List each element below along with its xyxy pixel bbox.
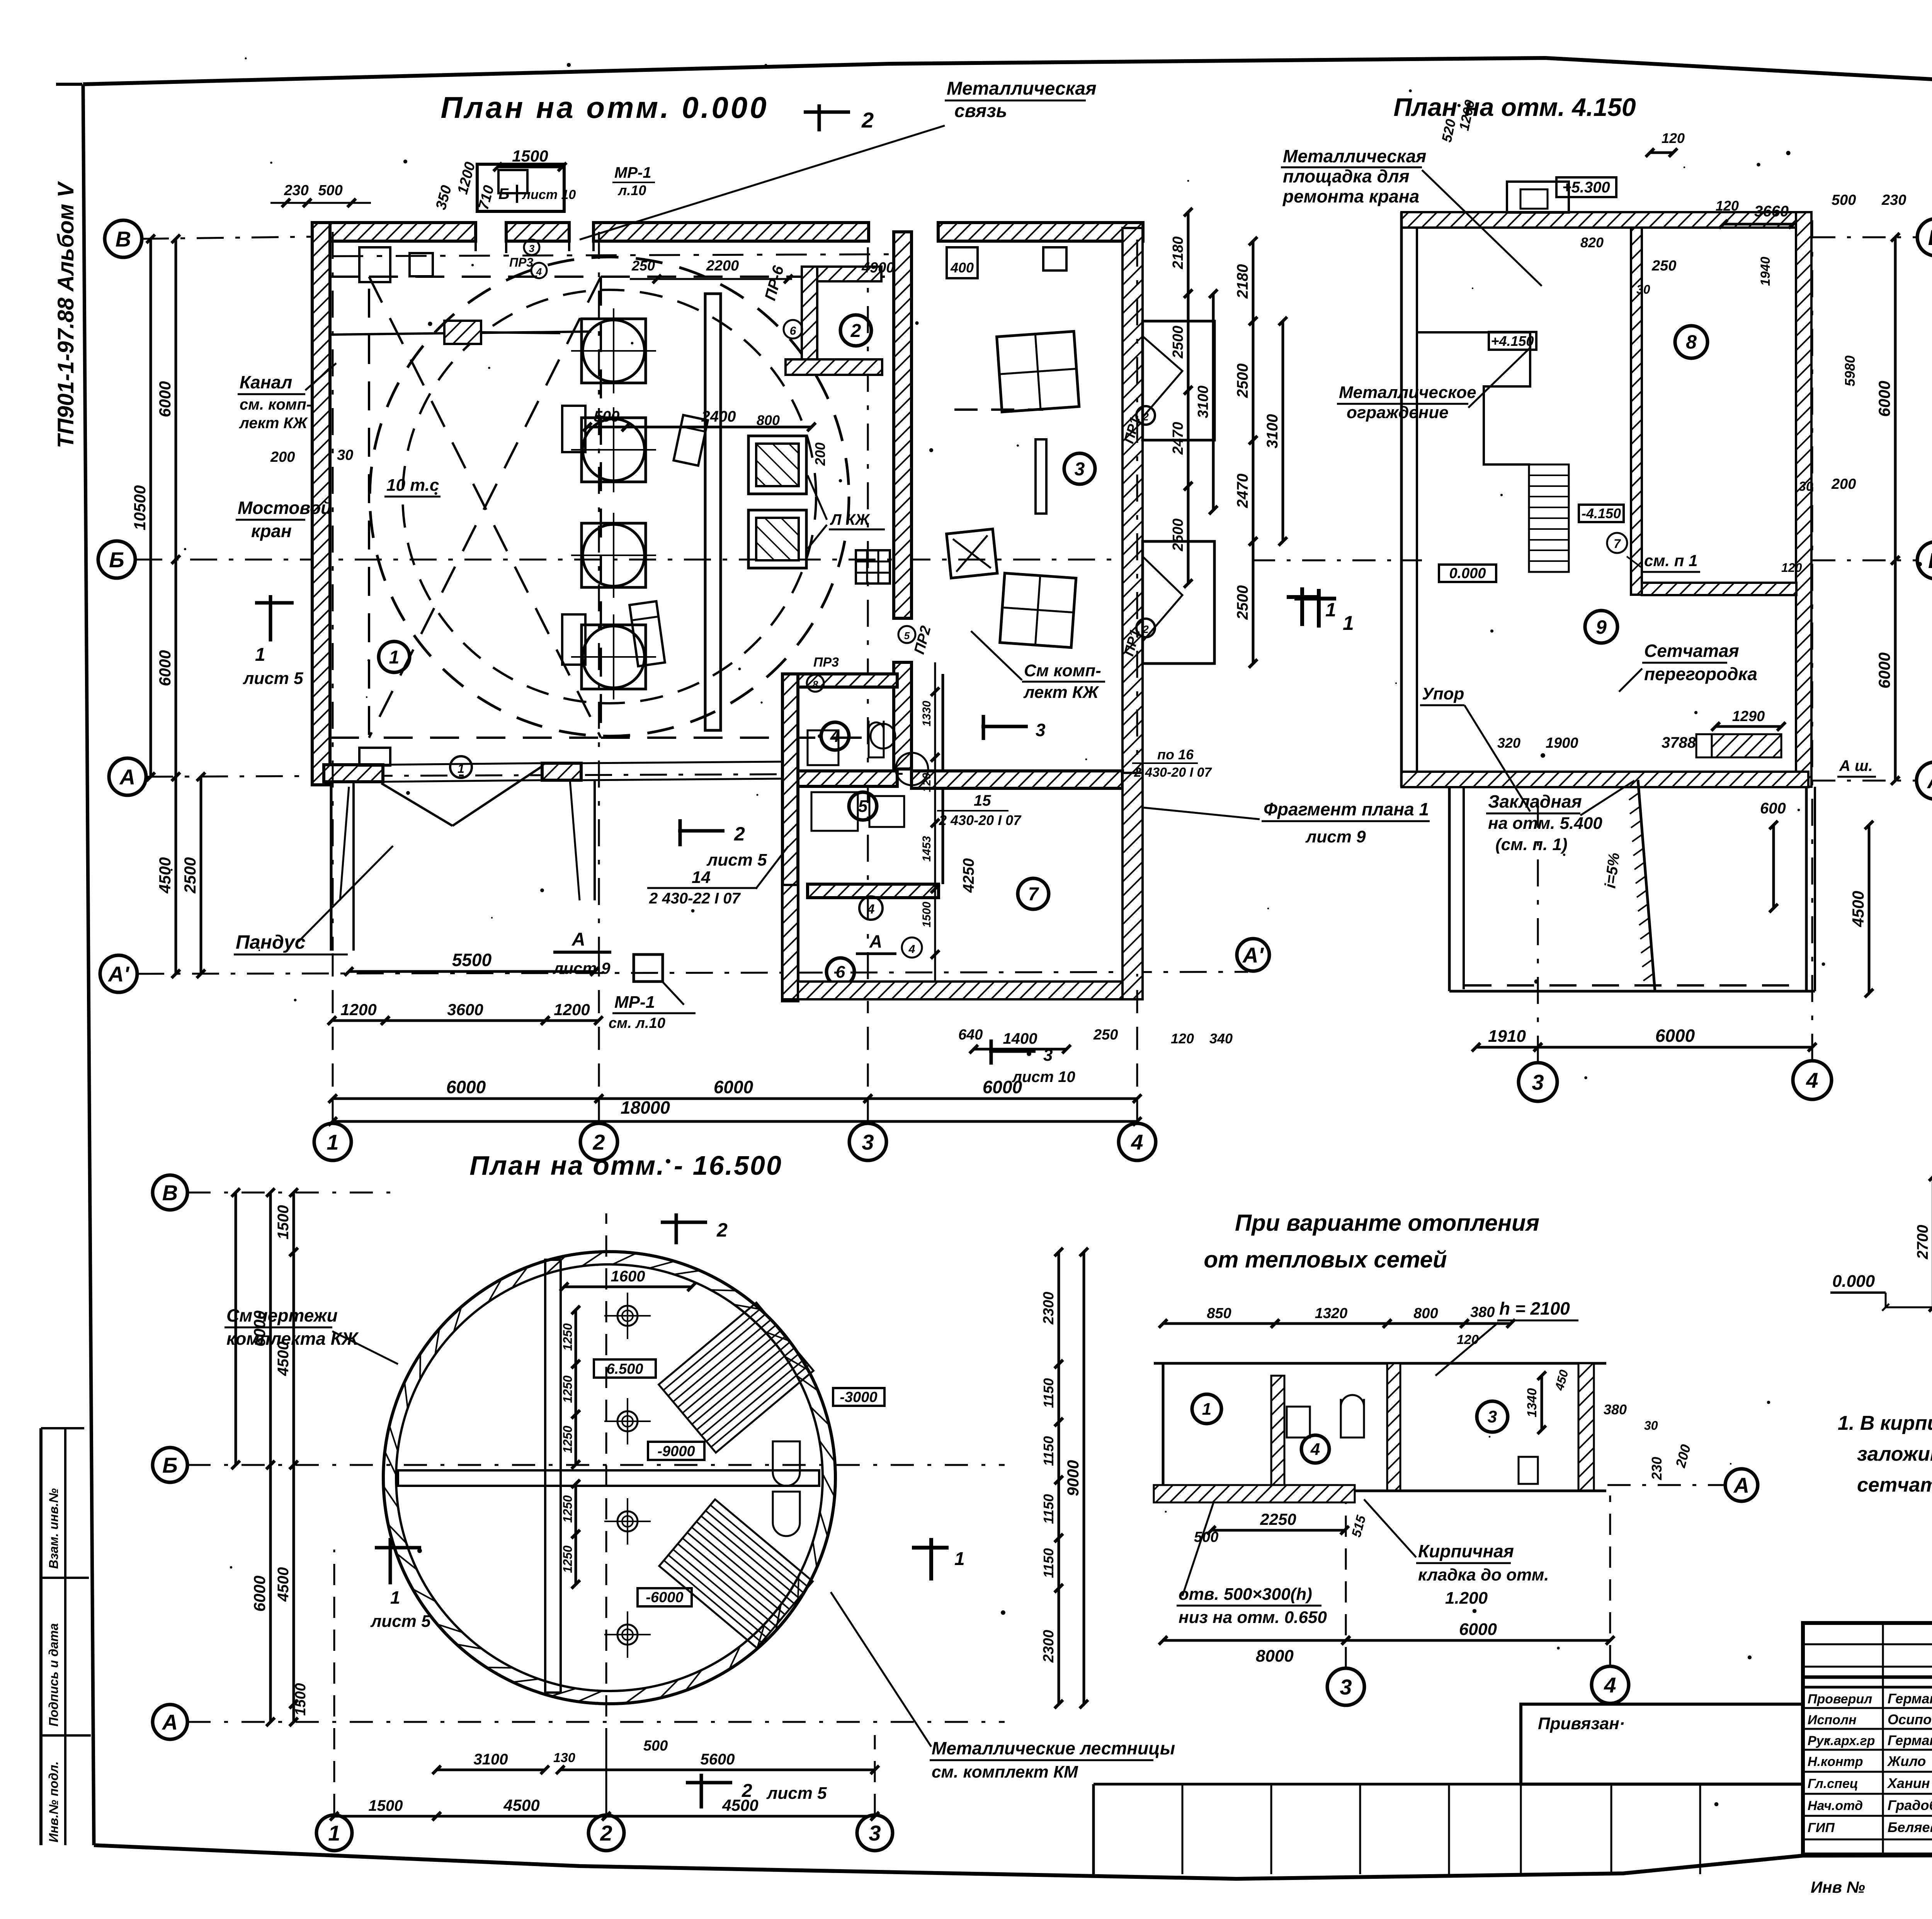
- plan0 interior dim chain rotated: [934, 662, 936, 983]
- svg-text:200: 200: [270, 449, 295, 465]
- svg-text:См чертежи: См чертежи: [226, 1305, 338, 1325]
- plan16 elevation box -6000: [638, 1588, 692, 1606]
- svg-text:1: 1: [255, 645, 265, 665]
- svg-text:(см. п. 1): (см. п. 1): [1495, 835, 1568, 854]
- plan16 right dims: [1058, 1252, 1060, 1364]
- title block upper small rows: [1803, 1643, 1932, 1645]
- svg-text:3: 3: [1075, 459, 1085, 480]
- svg-text:План на отм. - 16.500: План на отм. - 16.500: [469, 1150, 782, 1181]
- plan4 room9 label: [1585, 611, 1617, 643]
- plan4 room8 bottom wall: [1642, 583, 1796, 595]
- svg-text:лист 10: лист 10: [1012, 1068, 1075, 1085]
- svg-text:заложить уголок 50×5 , l = 2: заложить уголок 50×5 , l = 250мм для кре…: [1857, 1443, 1932, 1465]
- svg-text:500: 500: [1832, 192, 1856, 208]
- plan0 room6 label: [827, 958, 854, 986]
- svg-text:2700: 2700: [1914, 1225, 1931, 1260]
- plan0 room3 slim panel: [1036, 439, 1046, 514]
- plan4 bottom axis circles: [1519, 1063, 1557, 1101]
- svg-text:2180: 2180: [1234, 264, 1251, 299]
- plan0 A-axis wall right segment: [912, 771, 1122, 788]
- sect dim 1340: [1541, 1376, 1543, 1430]
- svg-text:Б: Б: [162, 1453, 178, 1477]
- svg-text:9: 9: [1596, 616, 1607, 638]
- svg-text:1600: 1600: [611, 1268, 645, 1285]
- plan0 left wall hatched: [312, 223, 330, 785]
- plan0 metal link dashdot line: [332, 254, 889, 256]
- svg-text:7: 7: [1614, 537, 1621, 551]
- plan16 section mark 2 bottom: [700, 1774, 703, 1808]
- svg-text:А: А: [119, 765, 135, 789]
- plan0 room2 walls: [802, 267, 817, 374]
- plan0 left wall lower part: [311, 223, 314, 785]
- svg-text:2: 2: [592, 1130, 605, 1154]
- svg-text:820: 820: [1580, 235, 1604, 250]
- svg-text:10500: 10500: [131, 485, 149, 531]
- svg-text:-9000: -9000: [657, 1443, 695, 1460]
- svg-text:120: 120: [920, 773, 933, 792]
- svg-text:120: 120: [1171, 1031, 1194, 1046]
- svg-text:1200: 1200: [340, 1000, 376, 1019]
- svg-text:850: 850: [1207, 1305, 1231, 1322]
- svg-text:Металлическая: Металлическая: [947, 78, 1097, 99]
- svg-text:лист 9: лист 9: [553, 959, 611, 977]
- plan0 room3 transformer box lower: [1000, 573, 1076, 647]
- plan16 section mark 1 left: [389, 1538, 392, 1584]
- plan16 lower stair: [659, 1499, 813, 1648]
- svg-text:А: А: [162, 1710, 178, 1734]
- svg-text:1320: 1320: [1315, 1305, 1348, 1322]
- svg-text:1500: 1500: [293, 1683, 309, 1716]
- svg-text:2300: 2300: [1041, 1630, 1057, 1663]
- svg-text:Упор: Упор: [1422, 684, 1464, 703]
- svg-text:1: 1: [327, 1130, 338, 1154]
- svg-text:А': А': [1242, 943, 1264, 967]
- sect bottom axis circles: [1327, 1668, 1364, 1705]
- svg-text:А ш.: А ш.: [1839, 757, 1873, 774]
- plan0 axis circle B: [98, 541, 135, 578]
- svg-text:250: 250: [631, 258, 655, 274]
- sheet frame top border: [83, 58, 1932, 88]
- svg-text:3100: 3100: [1264, 414, 1281, 449]
- plan16 bottom dims: [437, 1769, 545, 1771]
- svg-text:4: 4: [1131, 1130, 1143, 1154]
- svg-text:200: 200: [812, 442, 828, 466]
- svg-text:Канал: Канал: [240, 372, 292, 392]
- plan0 section mark 2 bottom: [678, 829, 724, 833]
- svg-text:4900: 4900: [861, 260, 895, 276]
- svg-text:8: 8: [813, 679, 818, 690]
- svg-text:1500: 1500: [512, 147, 548, 165]
- sect room3 label: [1477, 1401, 1508, 1432]
- svg-text:3: 3: [1036, 720, 1046, 740]
- title block outer: [1803, 1623, 1932, 1854]
- plan16 landing fixtures: [773, 1441, 800, 1486]
- svg-text:Проверил: Проверил: [1808, 1692, 1872, 1706]
- svg-text:6: 6: [790, 325, 796, 337]
- svg-text:см. п 1: см. п 1: [1644, 551, 1697, 570]
- sect axis A circle: [1725, 1469, 1758, 1501]
- svg-text:2500: 2500: [1234, 585, 1251, 620]
- plan16 upper stair: [659, 1303, 814, 1453]
- plan16 bottom axis circles: [316, 1815, 352, 1851]
- svg-text:6000: 6000: [1655, 1026, 1695, 1046]
- plan16 elevation box -3000: [833, 1388, 884, 1406]
- svg-text:Кирпичная: Кирпичная: [1418, 1541, 1514, 1561]
- plan4 top wall: [1401, 212, 1808, 228]
- svg-text:2: 2: [734, 823, 745, 845]
- svg-text:см. л.10: см. л.10: [609, 1015, 665, 1031]
- svg-text:от тепловых сетей: от тепловых сетей: [1204, 1247, 1447, 1273]
- svg-text:4: 4: [1604, 1673, 1616, 1697]
- svg-text:Б: Б: [1928, 548, 1932, 573]
- plan0 pump units: [582, 319, 646, 383]
- svg-text:250: 250: [1651, 258, 1676, 274]
- plan0 axis circle V: [105, 220, 142, 257]
- svg-text:4: 4: [867, 902, 875, 917]
- plan4 ramp diagonal hatched line: [1638, 780, 1655, 991]
- svg-text:4500: 4500: [156, 857, 174, 893]
- svg-text:3: 3: [1340, 1675, 1352, 1699]
- svg-text:1500: 1500: [920, 902, 933, 927]
- plan0 top-right fixtures: [947, 247, 978, 278]
- svg-text:2250: 2250: [1260, 1510, 1296, 1528]
- svg-text:по 16: по 16: [1157, 747, 1194, 762]
- plan0 room3 transformer box upper: [997, 332, 1079, 412]
- plan16 ring hatch marks: [823, 1474, 835, 1497]
- svg-text:120: 120: [1662, 130, 1685, 146]
- plan0 section mark 3 list10: [989, 1050, 1036, 1053]
- plan4 dims left side: [1187, 212, 1190, 294]
- svg-text:1: 1: [328, 1821, 340, 1845]
- svg-text:250: 250: [1093, 1027, 1118, 1043]
- plan4 left wall: [1400, 212, 1403, 787]
- svg-text:1400: 1400: [1003, 1030, 1037, 1047]
- plan0 axis circle A1: [100, 955, 137, 992]
- svg-text:6000: 6000: [1875, 381, 1893, 417]
- plan0 right wall: [1122, 228, 1143, 962]
- svg-text:6000: 6000: [446, 1077, 486, 1097]
- svg-text:Ханин: Ханин: [1887, 1775, 1930, 1791]
- svg-text:4: 4: [908, 943, 915, 956]
- plan0 ramp V lines: [381, 783, 452, 826]
- sect fixtures: [1287, 1407, 1310, 1438]
- svg-text:0.000: 0.000: [1832, 1272, 1875, 1291]
- plan0 crane runway dashed extension bottom: [330, 737, 369, 739]
- plan16 axis circle B: [153, 1448, 187, 1482]
- svg-text:Привязан·: Привязан·: [1538, 1714, 1625, 1733]
- svg-text:площадка для: площадка для: [1283, 166, 1410, 186]
- svg-text:1940: 1940: [1758, 257, 1773, 286]
- plan4 stairs: [1529, 464, 1569, 572]
- svg-text:2470: 2470: [1234, 474, 1251, 509]
- svg-text:1330: 1330: [920, 701, 933, 726]
- plan0 vent flag unit: [947, 529, 997, 578]
- svg-text:2500: 2500: [1170, 519, 1186, 552]
- svg-text:лист 5: лист 5: [706, 851, 767, 869]
- svg-text:6: 6: [836, 963, 845, 982]
- svg-text:200: 200: [1831, 476, 1856, 492]
- svg-text:3: 3: [1532, 1070, 1544, 1094]
- svg-text:2300: 2300: [1041, 1292, 1057, 1325]
- svg-text:2: 2: [600, 1821, 612, 1845]
- svg-text:1.200: 1.200: [1445, 1589, 1488, 1608]
- plan0 axis 3 vertical dashdot: [867, 247, 869, 1001]
- svg-text:1. В кирпичную кладку на: 1. В кирпичную кладку на отм. 4,150 и 6,…: [1838, 1412, 1932, 1434]
- title block small rows left: [1882, 1687, 1884, 1854]
- svg-text:1250: 1250: [561, 1323, 575, 1351]
- plan0 axis 4 vertical dashdot: [1136, 240, 1138, 974]
- plan16 section mark T1 right: [929, 1538, 933, 1580]
- plan4 elevation box 0.000: [1439, 565, 1496, 582]
- sect floor hatched: [1154, 1485, 1355, 1502]
- plan0 room2 door circle 6: [784, 320, 802, 339]
- plan16 section mark 2 top: [675, 1213, 678, 1244]
- svg-text:Б: Б: [498, 185, 509, 202]
- plan4 dims right: [1894, 237, 1897, 560]
- svg-text:120: 120: [1457, 1332, 1479, 1347]
- svg-text:2180: 2180: [1170, 236, 1186, 270]
- svg-text:+5.300: +5.300: [1562, 179, 1610, 196]
- left margin band: [39, 1428, 43, 1845]
- sect left wall: [1162, 1363, 1165, 1502]
- plan0 dashed cross line 2: [369, 277, 601, 738]
- plan16 vertical wall: [545, 1260, 561, 1693]
- svg-text:8: 8: [1686, 331, 1697, 353]
- plan0 room3 label: [1064, 453, 1095, 484]
- plan4 hatched bottom right detail: [1712, 734, 1781, 757]
- svg-text:Металлическая: Металлическая: [1283, 146, 1426, 166]
- svg-text:800: 800: [1413, 1305, 1438, 1322]
- svg-text:1900: 1900: [1546, 735, 1578, 751]
- svg-text:4: 4: [1806, 1068, 1818, 1092]
- svg-text:1150: 1150: [1041, 1436, 1056, 1466]
- svg-text:6000: 6000: [1459, 1620, 1497, 1639]
- svg-text:2500: 2500: [1234, 364, 1251, 398]
- svg-text:кладка до отм.: кладка до отм.: [1418, 1565, 1549, 1584]
- sect top line: [1154, 1362, 1606, 1365]
- svg-text:500: 500: [643, 1738, 668, 1754]
- plan16 well circles: [617, 1306, 638, 1326]
- svg-text:1: 1: [389, 647, 400, 668]
- svg-text:Пандус: Пандус: [236, 931, 306, 953]
- svg-text:1: 1: [390, 1587, 400, 1608]
- svg-text:400: 400: [950, 260, 974, 276]
- plan0 axis circle A: [109, 758, 146, 795]
- svg-text:Жило: Жило: [1887, 1753, 1926, 1769]
- svg-text:В: В: [162, 1181, 178, 1205]
- plan0 right wall dims: [1252, 241, 1255, 321]
- svg-text:Металлические лестницы: Металлические лестницы: [932, 1738, 1175, 1758]
- svg-text:Германов: Германов: [1888, 1732, 1932, 1748]
- svg-text:2: 2: [861, 108, 874, 132]
- svg-text:Осипова: Осипова: [1888, 1711, 1932, 1727]
- plan0 niche top B list10: [477, 164, 564, 211]
- svg-text:6000: 6000: [250, 1575, 269, 1611]
- svg-text:1910: 1910: [1488, 1027, 1526, 1046]
- svg-text:2 430-22 I 07: 2 430-22 I 07: [649, 890, 741, 907]
- svg-text:500: 500: [318, 182, 342, 199]
- plan0 dashed square: [369, 277, 601, 738]
- svg-text:перегородка: перегородка: [1644, 664, 1757, 684]
- svg-text:связь: связь: [954, 101, 1007, 121]
- plan0 mr-1 box: [634, 954, 663, 982]
- svg-text:см. комплект КМ: см. комплект КМ: [932, 1762, 1078, 1781]
- svg-text:Германов: Германов: [1888, 1691, 1932, 1706]
- svg-text:230: 230: [1649, 1457, 1665, 1480]
- svg-text:МР-1: МР-1: [614, 164, 651, 181]
- plan0 rooms 4-6 block walls: [782, 674, 798, 1001]
- plan16 outer circle: [383, 1252, 835, 1704]
- bottom cells strip: [1094, 1783, 1803, 1786]
- svg-text:1500: 1500: [369, 1797, 403, 1814]
- svg-text:4500: 4500: [503, 1796, 539, 1814]
- svg-text:2500: 2500: [1170, 326, 1186, 359]
- plan0 left vert dims: [175, 239, 177, 560]
- sect right wall hatched: [1578, 1363, 1594, 1491]
- plan0 crane runway dashed extension top: [330, 276, 369, 278]
- svg-text:В: В: [1928, 225, 1932, 250]
- svg-text:6000: 6000: [156, 650, 174, 686]
- plan0 door circle symbol: [896, 753, 928, 785]
- plan4 elevation box 4.150b: [1579, 505, 1624, 522]
- plan0 bottom dims 1200 3600 1200: [332, 1019, 385, 1022]
- svg-text:18000: 18000: [621, 1097, 670, 1118]
- plan4 elevation box +5.300: [1556, 177, 1616, 197]
- svg-text:1150: 1150: [1041, 1378, 1056, 1408]
- svg-text:5: 5: [858, 797, 868, 816]
- svg-text:340: 340: [1209, 1031, 1233, 1046]
- plan16 axis circle A: [153, 1705, 187, 1739]
- plan4 right wall: [1796, 212, 1811, 787]
- svg-text:См комп-: См комп-: [1024, 661, 1101, 680]
- scan speckles: [915, 321, 918, 325]
- svg-text:1200: 1200: [554, 1000, 590, 1019]
- svg-text:8000: 8000: [1256, 1647, 1294, 1666]
- svg-text:2: 2: [742, 1781, 752, 1801]
- svg-text:1: 1: [1343, 612, 1354, 635]
- svg-text:640: 640: [958, 1027, 983, 1043]
- svg-text:4500: 4500: [275, 1567, 292, 1602]
- svg-text:+4.150: +4.150: [1491, 333, 1534, 349]
- plan4 dim 1290: [1716, 725, 1781, 728]
- plan4 lower room left wall: [1448, 787, 1451, 991]
- svg-text:Н.контр: Н.контр: [1808, 1754, 1863, 1769]
- svg-text:1250: 1250: [561, 1495, 575, 1523]
- svg-text:14: 14: [692, 868, 711, 887]
- svg-text:При варианте отопления: При варианте отопления: [1235, 1210, 1539, 1236]
- sect dims top: [1163, 1322, 1275, 1325]
- svg-text:380: 380: [1470, 1304, 1495, 1320]
- svg-text:1150: 1150: [1041, 1548, 1056, 1578]
- svg-text:5500: 5500: [452, 950, 492, 970]
- sect partition walls: [1271, 1376, 1284, 1488]
- svg-text:6000: 6000: [1875, 652, 1893, 688]
- plan16 axis circle V: [153, 1175, 187, 1210]
- plan0 dims 500 2400: [587, 426, 626, 429]
- plan16 left dims: [269, 1193, 272, 1465]
- svg-text:380: 380: [1604, 1402, 1627, 1417]
- svg-text:-4.150: -4.150: [1582, 505, 1621, 521]
- plan0 small equipment boxes: [562, 406, 585, 452]
- sect room4 label: [1301, 1435, 1329, 1463]
- plan4 dim 4500 right: [1868, 825, 1871, 993]
- plan4 lower dashed line: [1464, 984, 1801, 987]
- svg-text:кран: кран: [251, 521, 292, 541]
- svg-text:4500: 4500: [275, 1342, 292, 1376]
- svg-text:А: А: [1927, 769, 1932, 793]
- svg-text:ПР3: ПР3: [813, 655, 839, 670]
- svg-text:План на отм. 0.000: План на отм. 0.000: [440, 90, 769, 124]
- svg-text:3660: 3660: [1754, 203, 1789, 220]
- svg-text:3: 3: [1043, 1046, 1053, 1065]
- plan0 room3 dashed equipment line: [954, 408, 1043, 411]
- plan0 top wall hatched: [312, 223, 476, 241]
- plan4 lower room bottom: [1449, 990, 1815, 993]
- plan4 axis right circles: [1917, 219, 1932, 256]
- sheet frame bottom border: [94, 1845, 1932, 1879]
- plan0 bottom dim 5500: [349, 970, 595, 973]
- svg-text:500: 500: [594, 408, 620, 425]
- top-left margin tick: [56, 83, 82, 86]
- svg-text:Б: Б: [109, 548, 124, 572]
- svg-text:лект КЖ: лект КЖ: [239, 415, 308, 432]
- plan4 axis 4 vertical dashdot: [1811, 220, 1813, 1061]
- svg-text:ГИП: ГИП: [1808, 1820, 1835, 1835]
- svg-text:Закладная: Закладная: [1488, 791, 1582, 811]
- svg-text:3100: 3100: [474, 1751, 508, 1768]
- svg-text:В: В: [116, 227, 131, 251]
- plan0 lower rooms bottom wall: [782, 982, 1142, 999]
- plan0 axis 2 vertical dashdot: [598, 232, 600, 958]
- svg-text:1: 1: [457, 762, 464, 776]
- svg-text:1: 1: [1202, 1400, 1211, 1419]
- svg-text:Фрагмент плана 1: Фрагмент плана 1: [1264, 799, 1429, 819]
- plan0 bottom wall hall: [324, 765, 383, 782]
- plan4 axis 3 vertical dashdot: [1537, 796, 1539, 1063]
- svg-text:Сетчатая: Сетчатая: [1644, 641, 1739, 661]
- plan0 room4a lower circle: [859, 897, 883, 920]
- svg-text:1250: 1250: [561, 1426, 575, 1453]
- svg-text:лект КЖ: лект КЖ: [1023, 683, 1099, 702]
- plan0 room4 wc fixture: [869, 721, 884, 757]
- plan16 inner circle: [396, 1264, 823, 1691]
- svg-text:Инв.№ подл.: Инв.№ подл.: [46, 1761, 61, 1842]
- svg-text:30: 30: [1799, 479, 1813, 494]
- plan0 equipment trapezoid upper: [673, 415, 708, 466]
- plan16 elevation box -9000: [648, 1442, 704, 1460]
- svg-text:Нач.отд: Нач.отд: [1808, 1798, 1863, 1813]
- svg-text:1: 1: [954, 1549, 965, 1569]
- plan0 section mark 1 list5: [269, 595, 272, 641]
- svg-text:лист 5: лист 5: [766, 1784, 827, 1803]
- svg-text:6000: 6000: [250, 1310, 269, 1346]
- plan0 bottom axis circles: [314, 1123, 351, 1160]
- sect room1 label: [1192, 1394, 1221, 1424]
- plan16 horizontal wall: [398, 1470, 819, 1486]
- plan0 section mark 3: [981, 725, 1028, 728]
- svg-text:3600: 3600: [447, 1000, 483, 1019]
- plan0 axis line A1: [137, 972, 1248, 974]
- plan0 hatched box KZh lower: [748, 510, 806, 568]
- plan0 T1 section mark: [1300, 587, 1304, 626]
- svg-text:3100: 3100: [1195, 386, 1211, 419]
- plan0 small top-left fixtures: [359, 247, 390, 282]
- plan4 interior vertical wall room8: [1631, 228, 1642, 595]
- plan0 room2 dims: [630, 278, 792, 280]
- plan16 dim 1600: [564, 1286, 692, 1288]
- plan4 axis line B inside: [1252, 560, 1422, 561]
- svg-text:230: 230: [1881, 192, 1906, 208]
